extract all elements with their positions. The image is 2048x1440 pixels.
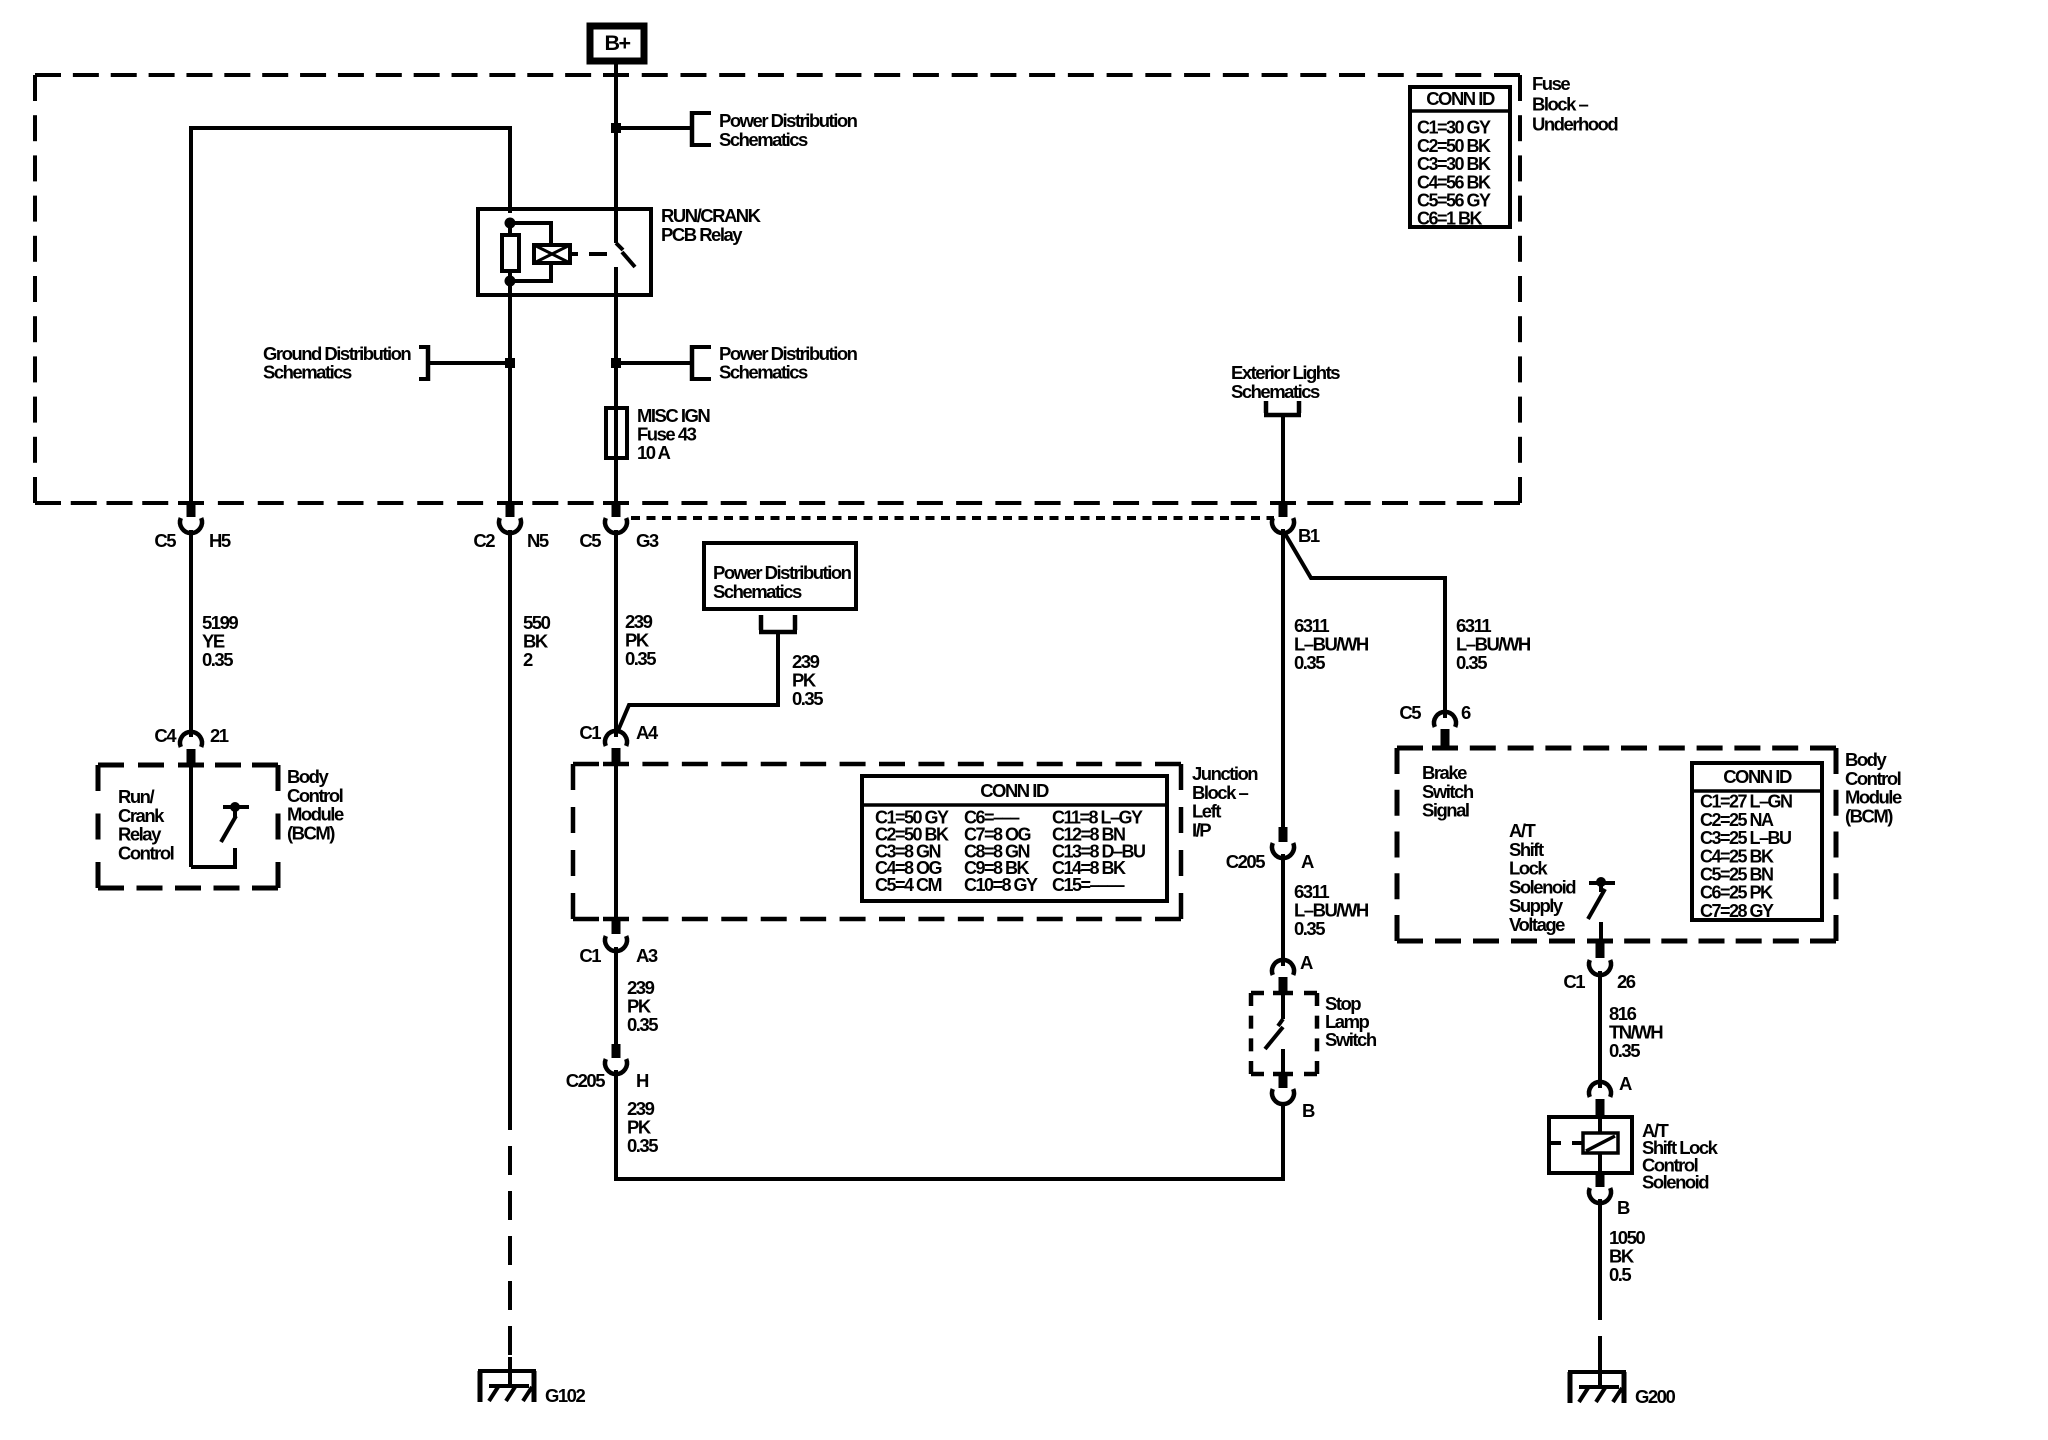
svg-text:CONN ID: CONN ID	[1723, 766, 1792, 787]
svg-text:Underhood: Underhood	[1532, 114, 1618, 135]
relay actuator dashed link	[570, 252, 607, 256]
svg-text:C7=28 GY: C7=28 GY	[1700, 901, 1774, 921]
A/T shift lock control solenoid box	[1549, 1117, 1632, 1173]
connector C5 G3	[579, 503, 659, 551]
svg-text:2: 2	[523, 649, 533, 670]
power distribution schematics box (mid-left)	[704, 543, 856, 609]
svg-text:26: 26	[1617, 971, 1636, 992]
label Stop Lamp Switch	[1325, 993, 1377, 1050]
svg-text:Switch: Switch	[1325, 1029, 1377, 1050]
exterior lights bracket	[1264, 401, 1301, 415]
relay coil resistor	[502, 223, 519, 281]
connector C4 21	[154, 725, 228, 766]
bracket under power distribution box	[759, 615, 797, 632]
svg-text:Solenoid: Solenoid	[1642, 1172, 1709, 1193]
svg-text:Schematics: Schematics	[1231, 381, 1320, 402]
svg-text:0.35: 0.35	[625, 648, 656, 669]
wire C1 26 down to A	[1598, 971, 1602, 1088]
label ground distribution schematics	[263, 343, 411, 382]
ground G200	[1568, 1358, 1675, 1407]
power distribution schematics bracket (mid)	[690, 345, 711, 381]
A/T shift lock solenoid supply switch	[1588, 877, 1615, 941]
svg-text:C2: C2	[473, 530, 495, 551]
svg-text:10 A: 10 A	[637, 442, 671, 463]
wire label 6311 L-BU/WH 0.35 (left)	[1294, 615, 1369, 673]
svg-text:C1: C1	[579, 945, 601, 966]
connector C205 H	[566, 1044, 649, 1091]
wire power distribution (mid) with junction dot	[611, 358, 691, 368]
svg-text:C4: C4	[154, 725, 177, 746]
svg-text:C6=25 PK: C6=25 PK	[1700, 883, 1773, 903]
junction block dotted boundary line	[631, 516, 1274, 520]
connector A solenoid	[1589, 1082, 1611, 1118]
svg-text:C1: C1	[579, 722, 601, 743]
svg-text:0.35: 0.35	[1294, 652, 1325, 673]
svg-text:C205: C205	[566, 1070, 605, 1091]
connector A stop lamp	[1272, 960, 1294, 994]
svg-text:C15=––––: C15=––––	[1052, 875, 1125, 895]
wire label 239 PK 0.35 (G3)	[625, 611, 656, 669]
wire to power distribution bracket (top)	[616, 126, 691, 130]
junction block CONN ID table	[862, 776, 1167, 901]
svg-text:A3: A3	[636, 945, 658, 966]
connector B1	[1272, 503, 1320, 546]
wire bottom run from H to stop lamp switch B	[616, 1070, 1283, 1179]
label power distribution schematics (mid)	[719, 343, 858, 382]
wire N5 dashed to G102	[508, 1101, 512, 1373]
wire label 239 PK 0.35 (branch)	[792, 651, 823, 709]
junction block left I/P dashed box	[573, 764, 1181, 919]
stop lamp switch contacts	[1265, 993, 1283, 1074]
connector C1 26	[1563, 941, 1635, 992]
svg-text:A: A	[1619, 1073, 1632, 1094]
label A (solenoid pin)	[1619, 1073, 1632, 1094]
svg-text:G102: G102	[545, 1385, 585, 1406]
fuse block CONN ID table	[1410, 87, 1510, 229]
svg-text:C2=50 BK: C2=50 BK	[1417, 136, 1491, 156]
svg-text:Block –: Block –	[1532, 93, 1589, 114]
relay coil junction dots	[505, 218, 516, 287]
svg-text:C2=25 NA: C2=25 NA	[1700, 810, 1774, 830]
wire B1 down to C205 A	[1281, 529, 1285, 830]
ground G102	[478, 1357, 585, 1406]
relay switch contact	[616, 209, 635, 297]
wire exterior lights to B1	[1281, 415, 1285, 503]
wire C205 A to stop lamp switch	[1281, 854, 1285, 966]
svg-text:0.35: 0.35	[627, 1135, 658, 1156]
svg-text:C3=30 BK: C3=30 BK	[1417, 154, 1491, 174]
wire label 239 PK 0.35 (C205 H)	[627, 1098, 658, 1156]
run/crank relay control switch	[191, 765, 249, 867]
connector C5 6	[1399, 702, 1471, 748]
wire H5 to C4	[189, 530, 193, 737]
wire label 239 PK 0.35 (A3)	[627, 977, 658, 1035]
ground distribution schematics bracket	[419, 345, 430, 381]
fuse block underhood dashed box	[35, 75, 1520, 503]
label Exterior Lights Schematics	[1231, 362, 1340, 402]
connector C1 A3	[579, 919, 658, 966]
svg-text:G3: G3	[636, 530, 659, 551]
svg-text:B: B	[1617, 1197, 1630, 1218]
svg-text:N5: N5	[527, 530, 549, 551]
svg-text:0.35: 0.35	[1294, 918, 1325, 939]
wire B+ down to relay	[614, 61, 618, 211]
wire N5 to ground solid	[508, 530, 512, 1101]
connector B solenoid	[1589, 1173, 1630, 1218]
svg-text:I/P: I/P	[1192, 819, 1211, 840]
label power distribution schematics (top)	[719, 110, 858, 150]
label Brake Switch Signal	[1422, 762, 1474, 821]
label Body Control Module (BCM) left	[287, 766, 344, 843]
BCM run/crank relay control dashed box	[98, 765, 278, 888]
wire G3 down to C1 A4	[614, 530, 618, 737]
svg-text:C5=56 GY: C5=56 GY	[1417, 191, 1491, 211]
svg-text:CONN ID: CONN ID	[1426, 88, 1495, 109]
svg-text:A: A	[1301, 851, 1314, 872]
svg-text:C1=27 L–GN: C1=27 L–GN	[1700, 792, 1792, 812]
svg-text:6: 6	[1461, 702, 1471, 723]
svg-text:B1: B1	[1298, 525, 1320, 546]
relay RUN/CRANK PCB Relay box	[478, 209, 651, 295]
svg-text:Signal: Signal	[1422, 800, 1469, 821]
svg-text:Fuse: Fuse	[1532, 73, 1570, 94]
svg-text:0.35: 0.35	[792, 688, 823, 709]
svg-text:PCB Relay: PCB Relay	[661, 224, 743, 245]
label MISC IGN fuse	[637, 405, 710, 463]
svg-text:C6=1 BK: C6=1 BK	[1417, 209, 1483, 229]
BCM body control module dashed box	[1397, 748, 1836, 941]
svg-text:C4=56 BK: C4=56 BK	[1417, 172, 1491, 192]
svg-text:0.5: 0.5	[1609, 1264, 1631, 1285]
svg-text:C205: C205	[1226, 851, 1265, 872]
connector C1 A4	[579, 722, 659, 764]
relay coil box with X	[534, 245, 570, 263]
svg-text:B: B	[1302, 1100, 1315, 1121]
svg-text:(BCM): (BCM)	[1845, 805, 1893, 826]
svg-text:Schematics: Schematics	[263, 361, 352, 382]
junction node on B+ wire	[611, 123, 621, 133]
svg-text:C10=8 GY: C10=8 GY	[964, 875, 1038, 895]
BCM CONN ID table	[1692, 763, 1822, 921]
wire label 1050 BK 0.5	[1609, 1227, 1645, 1285]
wire dashed to G200	[1598, 1291, 1602, 1374]
svg-text:Schematics: Schematics	[719, 129, 808, 150]
svg-text:Voltage: Voltage	[1509, 914, 1565, 935]
connector C205 A	[1226, 827, 1314, 872]
svg-text:C5: C5	[579, 530, 601, 551]
svg-text:A4: A4	[636, 722, 659, 743]
svg-text:21: 21	[210, 725, 229, 746]
label A/T Shift Lock Solenoid Supply Voltage	[1509, 820, 1576, 935]
wire ground distribution to N5 wire, junction dot	[428, 358, 515, 368]
svg-text:CONN ID: CONN ID	[980, 780, 1049, 801]
svg-text:B+: B+	[604, 31, 630, 55]
fuse MISC IGN Fuse 43 10 A	[606, 295, 627, 503]
wire label 6311 L-BU/WH 0.35 (right)	[1456, 615, 1531, 673]
label Junction Block Left I/P	[1192, 763, 1258, 840]
svg-text:C1: C1	[1563, 971, 1585, 992]
connector C2 N5	[473, 503, 549, 551]
wire label 816 TN/WH 0.35	[1609, 1003, 1663, 1061]
wire relay coil feed: horizontal + left drop + coil drop	[189, 126, 510, 503]
node B+ battery feed box	[590, 26, 644, 61]
svg-text:C5: C5	[1399, 702, 1421, 723]
svg-text:0.35: 0.35	[1456, 652, 1487, 673]
stop lamp switch dashed box	[1251, 993, 1317, 1074]
svg-text:0.35: 0.35	[627, 1014, 658, 1035]
wire A3 to C205 H	[614, 947, 618, 1046]
wire through junction block	[614, 764, 618, 919]
svg-text:H: H	[636, 1070, 649, 1091]
svg-text:C3=25 L–BU: C3=25 L–BU	[1700, 828, 1791, 848]
wire from bracket to C1 A4	[617, 632, 778, 733]
label Fuse Block Underhood	[1532, 73, 1618, 135]
label A/T Shift Lock Control Solenoid	[1642, 1120, 1719, 1193]
svg-text:H5: H5	[209, 530, 231, 551]
svg-text:C5=4 CM: C5=4 CM	[875, 875, 942, 895]
power distribution schematics bracket (top)	[690, 111, 711, 147]
svg-text:Schematics: Schematics	[719, 361, 808, 382]
svg-text:Schematics: Schematics	[713, 581, 802, 602]
svg-text:0.35: 0.35	[202, 649, 233, 670]
connector C5 H5	[154, 503, 231, 551]
svg-text:0.35: 0.35	[1609, 1040, 1640, 1061]
label Body Control Module (BCM) right	[1845, 749, 1902, 826]
svg-text:G200: G200	[1635, 1386, 1675, 1407]
svg-text:A: A	[1300, 952, 1313, 973]
svg-text:C5: C5	[154, 530, 176, 551]
label RUN/CRANK PCB Relay	[661, 205, 762, 245]
wire label 6311 L-BU/WH 0.35 (C205 A)	[1294, 881, 1369, 939]
label A (stop lamp pin)	[1300, 952, 1313, 973]
wire label 550 BK 2	[523, 612, 551, 670]
svg-text:C4=25 BK: C4=25 BK	[1700, 846, 1774, 866]
svg-text:Control: Control	[118, 842, 174, 863]
connector B stop lamp	[1272, 1074, 1315, 1121]
wire B1 branch diagonal to brake switch signal	[1284, 532, 1445, 718]
svg-text:C1=30 GY: C1=30 GY	[1417, 118, 1491, 138]
wire label 5199 YE 0.35	[202, 612, 238, 670]
relay coil wires loop	[510, 223, 551, 281]
svg-text:C5=25 BN: C5=25 BN	[1700, 865, 1773, 885]
svg-text:(BCM): (BCM)	[287, 822, 335, 843]
label Run/Crank Relay Control	[118, 786, 174, 863]
wire B solenoid to ground solid	[1598, 1199, 1602, 1291]
